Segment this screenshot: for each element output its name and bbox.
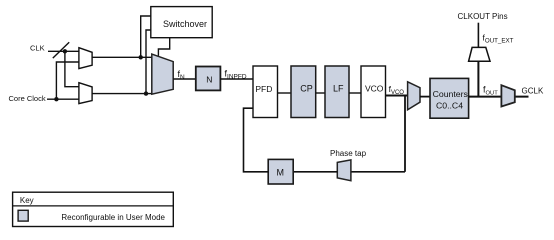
- key legend box: [13, 192, 174, 226]
- wire Phase tap mux to M: [293, 171, 337, 173]
- svg-text:PFD: PFD: [255, 84, 272, 94]
- svg-text:N: N: [206, 74, 212, 84]
- wire Switchover select to input mux: [158, 38, 169, 56]
- wire top buffer to input mux: [92, 56, 152, 58]
- svg-text:CP: CP: [300, 84, 313, 94]
- Counters C0..C4 box: [430, 78, 469, 118]
- wire CLKOUT mux to pins: [477, 23, 479, 48]
- wire bottom to Switchover input 2: [146, 30, 151, 94]
- wire fVCO tap down: [404, 96, 406, 172]
- wire M feedback to PFD: [244, 108, 269, 172]
- svg-text:Switchover: Switchover: [163, 19, 207, 29]
- wire PFD to CP: [278, 92, 292, 94]
- VCO box: [361, 66, 386, 118]
- wire Core Clock cross to top buffer: [56, 62, 79, 99]
- key divider: [13, 205, 174, 207]
- LF loop filter box: [325, 66, 349, 118]
- wire CLK input: [48, 50, 79, 52]
- input mux U1 clock switchover mux: [152, 54, 173, 94]
- input buffer mux top: [79, 48, 92, 69]
- wire VCO to tap mux: [386, 95, 408, 97]
- svg-text:CLK: CLK: [30, 44, 45, 53]
- wire Core Clock input: [47, 98, 79, 100]
- svg-text:Counters: Counters: [433, 89, 469, 99]
- junction dot on CLK line: [63, 49, 67, 53]
- svg-text:GCLK: GCLK: [522, 87, 544, 96]
- svg-text:LF: LF: [333, 84, 344, 94]
- svg-text:M: M: [277, 168, 285, 178]
- VCO output tap mux: [408, 82, 420, 110]
- svg-text:CLKOUT Pins: CLKOUT Pins: [458, 12, 508, 21]
- wire N to PFD: [220, 78, 253, 80]
- wire LF to VCO: [349, 92, 361, 94]
- GCLK output buffer: [501, 85, 514, 106]
- svg-text:Core Clock: Core Clock: [9, 94, 46, 103]
- svg-text:Key: Key: [20, 196, 34, 205]
- wire mux to N counter: [173, 78, 196, 80]
- svg-text:Reconfigurable in User Mode: Reconfigurable in User Mode: [61, 213, 165, 222]
- junction dot top wire: [139, 55, 143, 59]
- Switchover box: [151, 7, 212, 38]
- bus slash on CLK: [53, 42, 69, 58]
- svg-text:C0..C4: C0..C4: [436, 101, 463, 111]
- M counter box: [268, 159, 293, 184]
- CP charge pump box: [291, 66, 316, 118]
- svg-text:VCO: VCO: [365, 84, 384, 94]
- junction dot bottom wire: [144, 91, 148, 95]
- external clock output mux: [469, 47, 490, 61]
- wire CLK cross to bottom buffer: [65, 51, 79, 86]
- wire tap mux to Counters: [420, 96, 430, 98]
- input buffer mux bottom: [79, 83, 92, 104]
- N counter box: [196, 67, 221, 91]
- wire junction up to CLKOUT mux: [477, 61, 479, 96]
- PFD box: [253, 66, 278, 118]
- junction dot on Core Clock line: [54, 97, 58, 101]
- wire CP to LF: [316, 92, 325, 94]
- svg-text:Phase tap: Phase tap: [330, 149, 367, 158]
- wire bottom buffer to input mux: [92, 93, 152, 95]
- Phase tap mux: [337, 160, 351, 181]
- wire tap to Phase tap mux: [351, 171, 405, 173]
- key swatch reconfigurable: [18, 210, 28, 221]
- wire Counters to GCLK buffer: [469, 96, 529, 98]
- wire top to Switchover input 1: [141, 16, 151, 57]
